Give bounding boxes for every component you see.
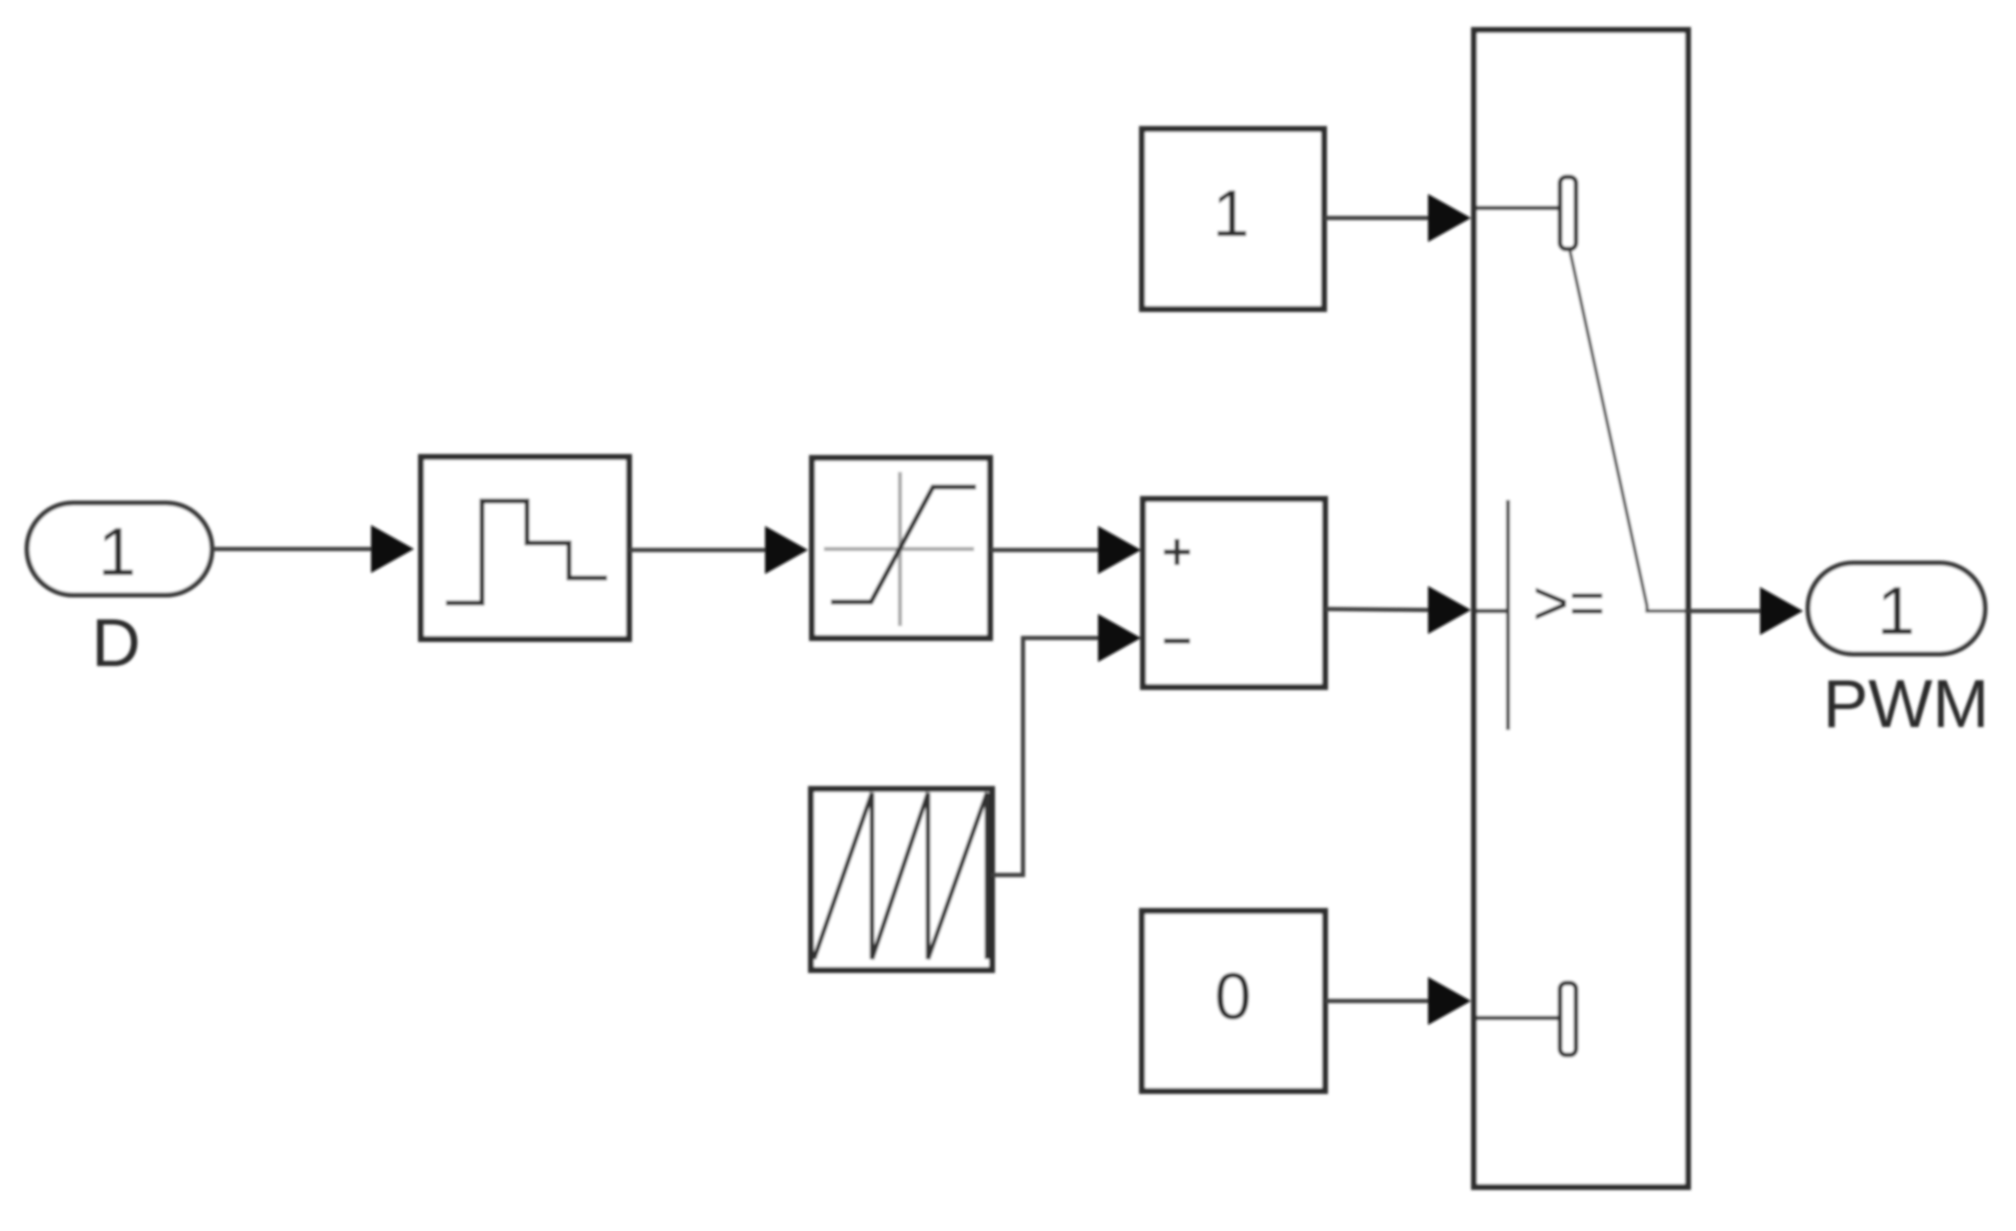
zero-order hold block — [421, 457, 629, 639]
wire constant 1 to switch — [1324, 216, 1429, 220]
wire sawtooth to sum minus — [992, 638, 1099, 875]
wire saturation to sum plus — [990, 548, 1099, 552]
wire sum to switch middle — [1325, 609, 1429, 610]
zero-order hold staircase icon — [446, 501, 607, 603]
wire switch to outport — [1688, 609, 1761, 613]
svg-text:1: 1 — [1213, 176, 1250, 250]
svg-text:1: 1 — [98, 514, 136, 590]
switch bottom input stub — [1476, 1016, 1560, 1020]
outport PWM oval — [1808, 563, 1985, 654]
switch top input stub — [1476, 206, 1560, 210]
switch middle stub — [1476, 609, 1508, 613]
wire ZOH to saturation — [629, 548, 766, 552]
saturation block — [812, 458, 990, 638]
constant 1 block — [1142, 129, 1324, 309]
sum plus sign — [1164, 539, 1190, 565]
sum block — [1143, 499, 1325, 687]
saturation vertical axis — [898, 472, 902, 626]
saturation horizontal axis — [824, 547, 974, 551]
switch block — [1474, 30, 1688, 1187]
inport D oval — [27, 503, 212, 595]
svg-text:1: 1 — [1877, 573, 1915, 649]
sawtooth icon — [814, 793, 987, 959]
switch bottom contact — [1560, 983, 1576, 1055]
svg-text:0: 0 — [1215, 959, 1252, 1033]
wire D to ZOH — [212, 547, 372, 551]
sum minus sign — [1164, 639, 1190, 644]
wire constant 0 to switch — [1325, 999, 1429, 1003]
switch threshold bar — [1506, 500, 1510, 730]
repeating sequence block — [811, 789, 992, 970]
svg-text:D: D — [91, 605, 140, 681]
switch top contact — [1560, 177, 1576, 249]
svg-text:>=: >= — [1533, 569, 1605, 638]
switch arm diagonal — [1570, 251, 1687, 611]
saturation curve — [831, 487, 976, 602]
svg-text:PWM: PWM — [1823, 666, 1989, 742]
constant 0 block — [1142, 911, 1325, 1091]
